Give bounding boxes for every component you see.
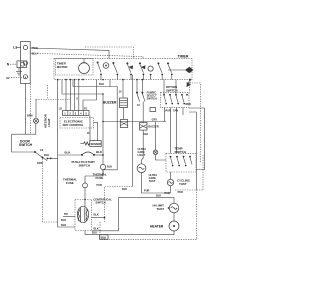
thermistor RT1 [80, 141, 101, 147]
electronic dry control U1 [60, 118, 94, 129]
svg-text:TM: TM [64, 212, 68, 216]
svg-text:BLU: BLU [32, 51, 38, 55]
svg-text:MOTOR: MOTOR [57, 65, 69, 69]
svg-text:BLU: BLU [92, 230, 97, 234]
drive motor M1 [75, 198, 112, 231]
wire G2 lead [11, 76, 22, 78]
wire right bus 2 [189, 108, 205, 170]
svg-text:BLK: BLK [107, 164, 112, 168]
ultra care light LT2 [138, 147, 158, 157]
wire dashed return center [105, 187, 133, 223]
svg-text:SWITCH: SWITCH [79, 164, 90, 168]
svg-text:BRN: BRN [27, 114, 33, 118]
wire lamp bottom [12, 123, 36, 134]
svg-text:BLK: BLK [99, 82, 104, 86]
svg-text:PUR: PUR [165, 109, 171, 113]
svg-text:BLK: BLK [94, 227, 99, 231]
wire motor left stub [63, 216, 75, 218]
neutral terminal N [7, 61, 27, 68]
wire dashed strip drop [29, 84, 31, 134]
wire motor bottom [84, 231, 86, 235]
wire interior dashed return [42, 158, 57, 222]
svg-text:THST: THST [149, 179, 156, 183]
wire distribution row 1 [73, 80, 117, 87]
option switch S4 [161, 85, 190, 107]
svg-text:FUSE: FUSE [96, 176, 104, 180]
svg-text:TAN: TAN [173, 109, 178, 113]
svg-text:BLK: BLK [122, 187, 127, 191]
timer cam wheel [103, 63, 109, 69]
push-to-start switch S1 [58, 150, 103, 168]
timer motor M2 [79, 59, 90, 74]
svg-text:BLK: BLK [61, 218, 66, 222]
sensor element 2 [140, 102, 159, 131]
wire uc light [155, 122, 157, 151]
buzzer BZ1 [103, 80, 128, 120]
wire fuse2 top [84, 176, 86, 183]
svg-text:BUZZER: BUZZER [103, 100, 117, 104]
timer enclosure [54, 59, 192, 80]
wire right bus 1 [189, 112, 196, 190]
svg-text:SWITCH: SWITCH [147, 97, 157, 101]
wire top bus to timer [30, 48, 109, 59]
svg-text:BLK: BLK [96, 150, 103, 154]
wire heater bottom [85, 231, 174, 235]
wire option outputs [165, 108, 183, 154]
svg-text:BLK: BLK [44, 153, 49, 157]
node [84, 199, 86, 201]
svg-text:THST: THST [179, 182, 187, 186]
wire door switch out [47, 158, 57, 160]
wire hi-limit to heater [173, 213, 175, 221]
node [102, 93, 104, 95]
wire sensor feed [89, 116, 91, 141]
wire dashed upper branch [85, 47, 133, 59]
door switch S2 [19, 140, 49, 165]
wire N lead [10, 63, 17, 65]
label INTERIOR LIGHT (vertical) [44, 113, 52, 128]
wire L1 lead [16, 47, 21, 49]
svg-text:BLK: BLK [61, 223, 66, 227]
node [50, 158, 52, 160]
timer contact 9 [186, 79, 191, 87]
svg-text:FUSE: FUSE [66, 181, 74, 185]
wire door switch in [12, 134, 35, 152]
thermal fuse TF2 [63, 177, 87, 187]
svg-text:BLK: BLK [101, 235, 106, 239]
wire motor top in [84, 200, 86, 207]
wire dashed stub [47, 85, 49, 100]
svg-text:HEATER: HEATER [150, 224, 164, 228]
timer contact 2 [112, 62, 118, 75]
wire hi-limit top run [119, 198, 175, 204]
wire left bus from timer [57, 80, 59, 155]
connector J1 [63, 111, 90, 116]
moisture sensor bar [120, 120, 127, 128]
wire left bus down [58, 155, 75, 227]
cycling thermostat [167, 179, 190, 187]
svg-text:C2: C2 [40, 148, 44, 152]
fabric selector switch [136, 80, 157, 112]
terminal block TB1 [21, 42, 31, 84]
wire right bus dashed [191, 80, 201, 163]
svg-text:BLK: BLK [65, 151, 72, 155]
wire from block bottom [24, 84, 26, 135]
node [102, 154, 104, 156]
wire motor right out 2 [92, 198, 119, 231]
svg-text:BLK: BLK [143, 132, 148, 136]
svg-text:SENSOR: SENSOR [91, 142, 102, 146]
wire uc thst top [142, 130, 144, 164]
svg-text:RED: RED [186, 102, 192, 106]
wire lamp link to bus [36, 99, 70, 101]
svg-text:G2: G2 [6, 76, 10, 80]
svg-text:BLK: BLK [94, 213, 99, 217]
timer contact 8 bowtie [168, 67, 193, 73]
node [104, 217, 106, 219]
wire uc thst bottom [142, 173, 171, 193]
wire long center drop [132, 75, 134, 187]
wire fuse drop [102, 94, 104, 164]
svg-text:SWITCH: SWITCH [19, 143, 33, 147]
svg-text:PUR: PUR [144, 189, 150, 193]
svg-text:BLK: BLK [156, 194, 161, 198]
svg-text:PUR: PUR [178, 190, 184, 194]
wire control out [94, 123, 98, 141]
wire fuse2 bottom [84, 188, 86, 200]
svg-text:TIMER: TIMER [178, 54, 189, 58]
wire cycling top [170, 172, 172, 179]
wire cycling bottom [170, 186, 172, 193]
wire dashed bus to timer top [30, 53, 143, 58]
svg-text:PUR: PUR [97, 183, 103, 187]
hi-limit thermostat [153, 203, 179, 213]
wire elbow 2 [103, 87, 117, 170]
timer contact 3 [126, 62, 133, 75]
svg-text:GRN: GRN [37, 161, 43, 165]
svg-text:DRY CONTROL: DRY CONTROL [63, 123, 84, 127]
svg-text:LIGHT: LIGHT [47, 118, 51, 127]
wire GRY run [102, 117, 166, 122]
heater HTR1 [150, 221, 179, 231]
wire distribution row 2 [62, 80, 103, 94]
svg-text:SWITCH: SWITCH [96, 201, 106, 205]
wire connector feeds [66, 80, 96, 111]
node junctions on timer bottom [57, 79, 143, 81]
interior light LT1 [34, 118, 39, 123]
ultra care thermostat [137, 164, 157, 183]
svg-text:LIGHT: LIGHT [138, 153, 146, 157]
wire fuse2 link [85, 170, 103, 176]
svg-text:THST: THST [157, 207, 165, 211]
timer motor box [56, 59, 94, 75]
timer contact 7 [167, 62, 173, 75]
temp switch S5 [166, 146, 196, 172]
wire option feeds [164, 80, 190, 94]
timer contact 5 [148, 66, 153, 76]
wire fuse to elbow [102, 170, 104, 176]
wire gauge note [100, 235, 109, 239]
ground [16, 68, 22, 75]
timer contact 6 [157, 62, 163, 75]
svg-text:BUZZER: BUZZER [148, 124, 158, 128]
wire bottom dashed run [100, 190, 197, 240]
svg-text:GRY: GRY [152, 117, 158, 121]
wire motor right out 1 [92, 217, 105, 219]
svg-text:PUR: PUR [165, 191, 171, 195]
wire temp box dashed skirt [175, 155, 203, 190]
wire contact stems [101, 74, 172, 86]
wire lamp top [35, 99, 37, 118]
thermal fuse TF1 [93, 164, 113, 180]
timer contact 1 [97, 62, 102, 76]
timer contact 4 [139, 62, 145, 75]
